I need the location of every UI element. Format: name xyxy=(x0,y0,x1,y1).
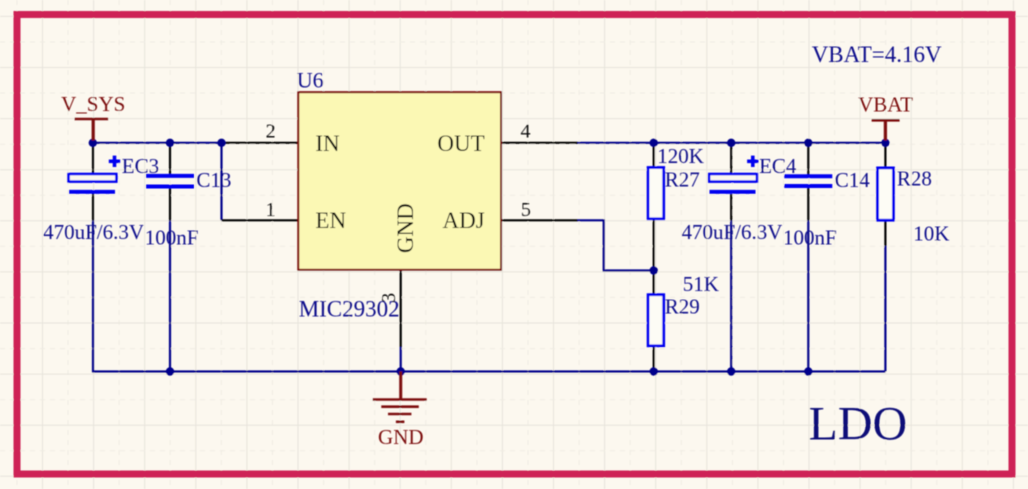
svg-text:EC3: EC3 xyxy=(122,154,159,178)
svg-text:470uF/6.3V: 470uF/6.3V xyxy=(43,220,144,244)
svg-text:GND: GND xyxy=(378,425,424,449)
svg-text:IN: IN xyxy=(315,131,340,156)
svg-text:2: 2 xyxy=(266,121,276,143)
svg-text:R27: R27 xyxy=(665,168,700,192)
svg-text:OUT: OUT xyxy=(437,131,484,156)
svg-text:10K: 10K xyxy=(913,222,949,246)
svg-text:120K: 120K xyxy=(657,144,704,168)
svg-text:51K: 51K xyxy=(683,272,719,296)
svg-text:C14: C14 xyxy=(835,168,871,192)
svg-text:U6: U6 xyxy=(297,68,324,93)
svg-text:470uF/6.3V: 470uF/6.3V xyxy=(682,220,783,244)
svg-text:VBAT=4.16V: VBAT=4.16V xyxy=(812,42,942,67)
svg-text:LDO: LDO xyxy=(809,397,908,450)
svg-text:5: 5 xyxy=(521,199,531,221)
svg-text:R28: R28 xyxy=(897,167,932,191)
svg-text:V_SYS: V_SYS xyxy=(61,92,125,116)
svg-text:100nF: 100nF xyxy=(145,225,199,249)
svg-text:C13: C13 xyxy=(196,168,231,192)
svg-text:4: 4 xyxy=(521,121,531,143)
svg-text:R29: R29 xyxy=(665,295,700,319)
svg-text:GND: GND xyxy=(393,203,418,253)
svg-text:VBAT: VBAT xyxy=(858,92,913,116)
svg-text:100nF: 100nF xyxy=(783,225,837,249)
svg-text:EN: EN xyxy=(315,208,346,233)
svg-text:ADJ: ADJ xyxy=(443,208,485,233)
svg-text:1: 1 xyxy=(266,199,276,221)
svg-text:EC4: EC4 xyxy=(759,154,797,178)
svg-text:3: 3 xyxy=(378,293,400,303)
